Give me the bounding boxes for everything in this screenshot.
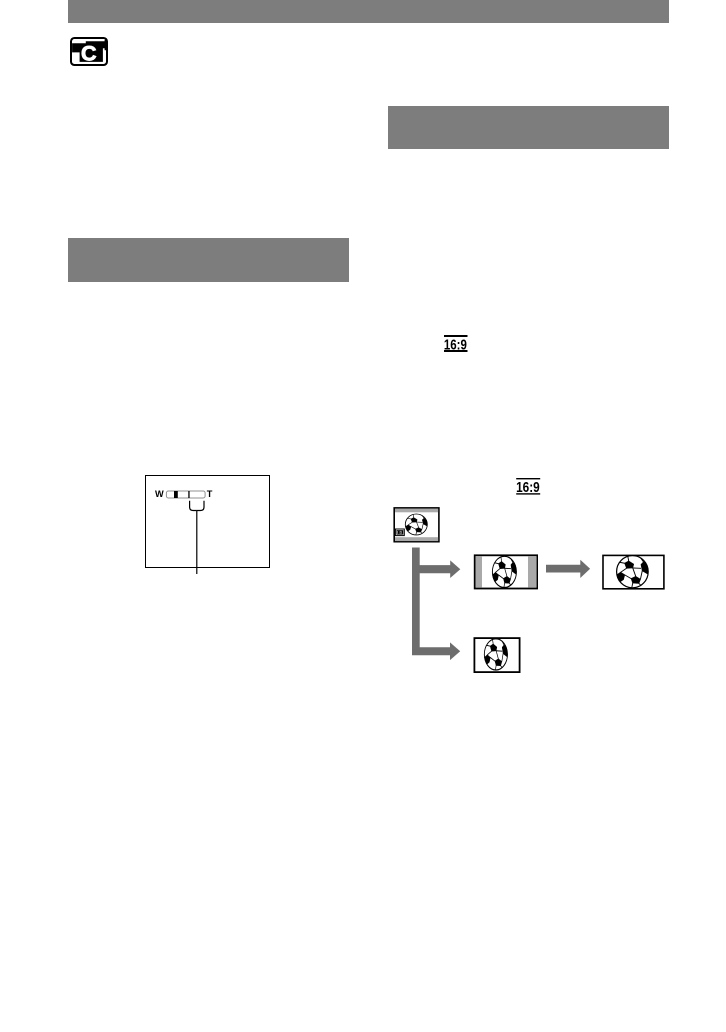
bracket + stem <box>190 500 197 510</box>
svg-text:T: T <box>207 488 213 498</box>
tiny 16:9 indicator <box>395 529 404 536</box>
divider <box>188 491 189 498</box>
screen 1: viewfinder with letterbox <box>394 508 439 542</box>
top header gray bar <box>68 0 669 23</box>
16:9 icon #2 <box>515 477 542 497</box>
svg-text:16:9: 16:9 <box>516 480 540 496</box>
svg-text:C: C <box>81 42 97 66</box>
camcorder icon <box>70 37 108 66</box>
svg-text:W: W <box>155 488 164 498</box>
screen 2: squeezed with pillars <box>475 555 537 588</box>
screen 4: 4:3 TV squeezed <box>474 638 519 672</box>
right section heading bar <box>388 106 669 149</box>
wide-mode diagram <box>385 500 685 685</box>
screen 3: 16:9 TV <box>603 555 664 589</box>
svg-text:16:9: 16:9 <box>444 336 467 353</box>
16:9 icon #1 <box>443 334 470 354</box>
left section heading bar <box>68 238 349 282</box>
middle arrow <box>546 560 590 578</box>
slider body <box>166 491 205 498</box>
W/T zoom display box <box>145 475 270 568</box>
branching arrows <box>412 548 460 661</box>
black knob <box>174 491 178 498</box>
